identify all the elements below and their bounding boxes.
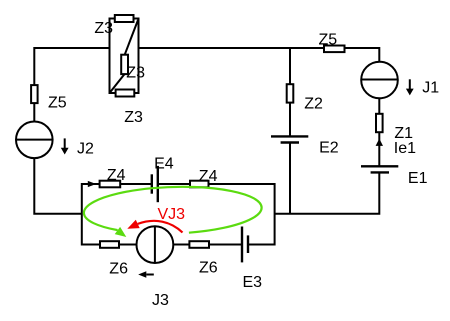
wire J2 bottom down and right to loop left side [34,158,82,214]
wire top-left from left branch to Z3 block [34,48,109,122]
Z3 block top wire [109,18,140,20]
svg-text:Z2: Z2 [304,95,323,112]
loop bottom wire E3 to right corner [248,244,275,246]
svg-text:Z6: Z6 [199,260,218,277]
svg-text:J2: J2 [77,140,94,157]
svg-text:E3: E3 [243,274,263,291]
current source J3 [137,226,174,263]
svg-text:E2: E2 [319,140,339,157]
resistor Z3 (top of block) [115,15,134,22]
svg-text:E4: E4 [154,155,174,172]
battery E3 [242,227,248,263]
battery E4 [152,166,158,202]
resistor Z4 (right) [190,181,209,188]
loop top wire left of E4 [82,183,152,185]
J1 current direction arrow [406,79,414,95]
battery E2 [271,136,308,142]
svg-text:Z4: Z4 [107,167,126,184]
loop bottom wire J3 to E3 [172,244,242,246]
battery E1 [361,166,398,172]
resistor Z3 (bottom of block) [116,90,135,97]
main top wire from Z3 block to J1 branch corner [139,48,380,62]
Z3 block right vertical wire [138,18,140,95]
current source J1 [361,62,398,99]
svg-text:Z3: Z3 [126,65,145,82]
mesh current loop arrow (green ellipse) [83,184,262,238]
svg-text:Z3: Z3 [94,20,113,37]
resistor Z2 [287,84,294,102]
svg-text:Z3: Z3 [124,109,143,126]
svg-text:Z4: Z4 [199,168,218,185]
voltage arrow VJ3 (red) [127,220,182,233]
resistor Z5 (top right) [324,46,345,53]
svg-text:Z6: Z6 [109,261,128,278]
Z3 block left vertical wire [109,18,111,95]
resistor Z5 (left branch) [31,85,37,103]
resistor Z4 (left) [100,181,121,188]
wire current direction arrow on loop top wire [88,181,96,187]
svg-text:Ie1: Ie1 [394,140,416,157]
current source J2 [16,122,53,159]
svg-text:VJ3: VJ3 [158,206,186,223]
loop bottom wire left of J3 [82,244,138,246]
svg-text:J1: J1 [422,80,439,97]
Z3 block bottom wire [109,92,140,94]
wire J1 to Z1 [378,98,380,114]
svg-text:Z5: Z5 [48,94,67,111]
resistor Z3 (middle of block) [121,55,128,74]
svg-text:E1: E1 [408,170,428,187]
Z3 block diagonal upper segment [125,20,138,55]
resistor Z6 (left) [100,241,119,248]
loop left vertical wire [81,183,83,246]
resistor Z6 (right) [189,241,209,248]
J2 current direction arrow [61,138,69,154]
svg-text:J3: J3 [152,292,169,309]
wire E2 down to bottom node wire [289,143,291,214]
wire E1 down to bottom node wire [275,172,380,213]
wire Z1 to E1 [378,132,380,166]
J3 current direction arrow [138,271,154,278]
wire Z2 branch from top wire [289,48,291,84]
resistor Z1 [376,114,383,132]
wire Z2 to E2 [289,103,291,137]
svg-text:Z5: Z5 [319,32,338,49]
current arrow Ie1 [376,139,383,146]
loop top wire right of E4 [158,183,275,185]
loop right vertical wire [274,183,276,246]
Z3 block diagonal lower segment [110,74,125,93]
